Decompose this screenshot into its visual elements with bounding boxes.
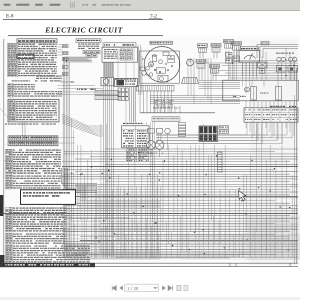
svg-text:1 / 38: 1 / 38 bbox=[127, 286, 139, 291]
svg-text:E-8: E-8 bbox=[6, 14, 14, 20]
svg-text:ELECTRIC CIRCUIT: ELECTRIC CIRCUIT bbox=[44, 26, 123, 35]
